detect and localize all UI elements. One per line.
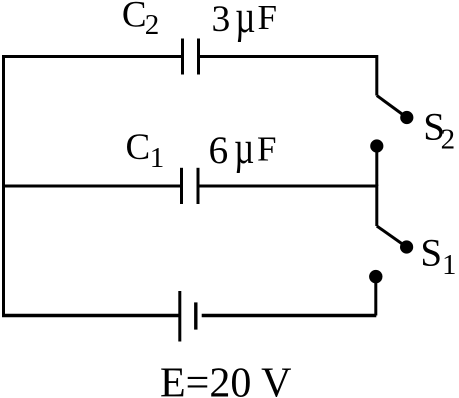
- switch S2 blade: [377, 96, 407, 118]
- wire middle rail right segment with riser down: [200, 186, 377, 226]
- svg-text:2: 2: [441, 123, 456, 155]
- capacitor C2: [183, 39, 199, 75]
- switch S1 blade-end dot: [400, 240, 413, 253]
- svg-text:µ: µ: [234, 121, 254, 173]
- switch S1 contact dot: [369, 270, 382, 283]
- svg-text:6: 6: [209, 128, 229, 172]
- wire bottom rail right segment: [202, 314, 377, 318]
- switch S2 blade-end dot: [400, 111, 413, 124]
- wire stub S2 contact to middle rail: [375, 146, 378, 186]
- label C1: [126, 127, 165, 174]
- wire left vertical: [2, 55, 5, 317]
- svg-text:2: 2: [145, 9, 160, 41]
- battery E short plate: [194, 302, 197, 329]
- svg-text:F: F: [257, 129, 276, 168]
- label 6 uF (C1 value): [209, 121, 277, 173]
- svg-text:E=20 V: E=20 V: [160, 361, 291, 398]
- svg-text:C: C: [126, 127, 151, 168]
- svg-text:1: 1: [150, 142, 165, 174]
- svg-text:C: C: [122, 0, 147, 35]
- wire middle rail left segment: [2, 185, 180, 188]
- wire top rail right segment with corner down: [200, 57, 377, 96]
- wire top rail left segment: [2, 55, 181, 58]
- svg-text:S: S: [420, 231, 442, 274]
- svg-text:F: F: [258, 0, 277, 37]
- svg-text:µ: µ: [235, 0, 255, 42]
- svg-text:3: 3: [212, 0, 231, 40]
- label S1: [420, 231, 456, 281]
- capacitor C1: [182, 168, 199, 204]
- switch S1 blade: [377, 226, 407, 247]
- battery E long plate: [178, 291, 181, 342]
- switch S2 contact dot: [370, 139, 383, 152]
- label S2: [423, 106, 455, 156]
- svg-text:1: 1: [442, 250, 456, 281]
- label C2: [122, 0, 159, 41]
- wire stub S1 contact to bottom rail: [374, 277, 377, 316]
- label 3 uF (C2 value): [212, 0, 277, 42]
- wire bottom rail left segment: [2, 314, 180, 318]
